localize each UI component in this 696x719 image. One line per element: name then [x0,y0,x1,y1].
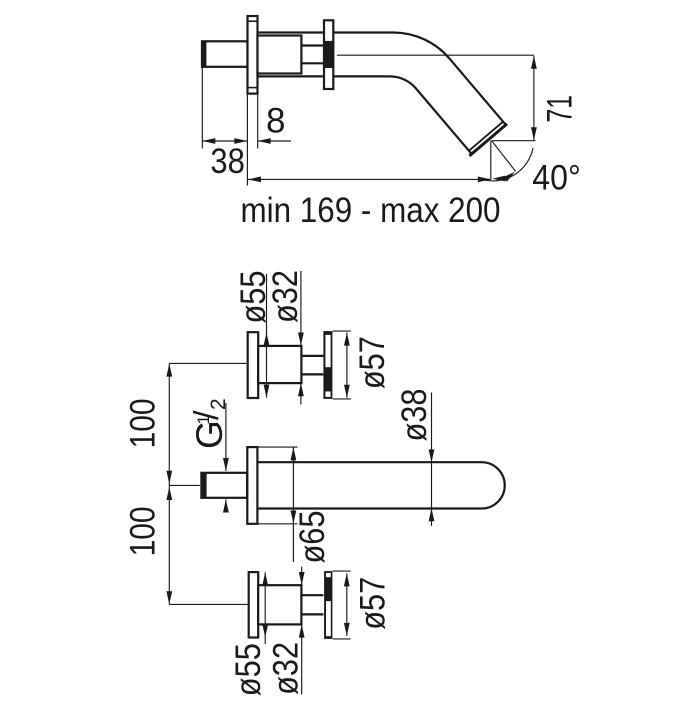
wall flange [248,16,258,94]
dim dia55 top [266,274,268,398]
svg-text:ø65: ø65 [293,511,332,564]
centerline / 71 top extension [337,54,534,56]
svg-text:ø55: ø55 [229,643,268,696]
dim 8 [258,140,291,142]
svg-text:100: 100 [124,398,163,448]
handle 1 stem [301,355,323,357]
spout tube side view [258,33,506,155]
svg-text:40°: 40° [532,159,581,198]
spout flange [247,447,257,524]
dim 40 degrees [492,141,516,172]
dim 100 / 100 [168,364,170,605]
inlet pipe [202,41,248,67]
handle 2 flange [249,572,259,637]
svg-text:min 169 - max 200: min 169 - max 200 [241,191,501,230]
svg-text:ø38: ø38 [395,389,434,442]
dim min 169 - max 200 [248,178,491,180]
handle 1 flange [248,332,259,398]
svg-text:100: 100 [124,506,163,556]
dim dia55 bottom [264,572,266,644]
handle 1 disc [323,331,332,399]
handle 1 body [258,346,301,383]
aerator face [469,124,507,156]
svg-text:ø57: ø57 [353,336,392,389]
dim 38 [202,140,247,142]
handle 2 stem [301,594,323,596]
escutcheon black band [323,41,334,68]
svg-text:38: 38 [210,142,245,181]
dim dia57 bottom [346,573,348,636]
svg-text:8: 8 [266,102,285,141]
dim dia32 bottom [301,567,303,586]
svg-text:ø32: ø32 [266,270,305,323]
G1/2 stem [201,473,247,498]
stem lines [301,44,324,46]
spout front view tube [257,462,504,508]
dim dia32 top [300,271,302,345]
dim dia57 top [346,333,348,398]
G1/2 stem end cap [201,472,207,499]
svg-text:ø32: ø32 [267,642,306,695]
extension lines 38 and 8 [201,68,203,149]
dim dia65 [292,447,294,562]
svg-text:71: 71 [541,95,580,123]
svg-text:ø57: ø57 [354,577,393,630]
handle 2 body [258,585,301,624]
inlet pipe end cap [201,41,206,68]
mixer body [258,36,302,74]
dim 71 [533,56,535,141]
handle 2 disc [324,571,332,639]
escutcheon ring [324,20,333,89]
dim dia38 [431,393,433,527]
